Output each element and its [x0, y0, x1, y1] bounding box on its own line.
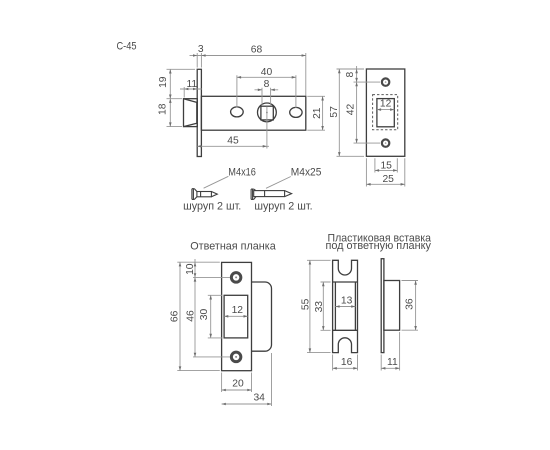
- svg-text:19: 19: [158, 76, 169, 88]
- arrows dim 25: [366, 183, 404, 186]
- dim 34 line: [222, 403, 272, 405]
- svg-text:21: 21: [312, 107, 323, 119]
- arrows dim 3: [193, 54, 206, 57]
- dim 8/57 top extension: [337, 68, 365, 70]
- svg-text:34: 34: [253, 393, 265, 404]
- svg-text:11: 11: [387, 357, 398, 368]
- latch body case: [201, 96, 305, 130]
- dim 45 line: [197, 145, 269, 147]
- arrows dim 16: [333, 367, 358, 370]
- dim 16 line: [333, 367, 358, 369]
- strike plate tab: [252, 282, 272, 351]
- svg-text:11: 11: [186, 79, 197, 90]
- front hole centre dots: [385, 81, 387, 83]
- arrows strike dim 12: [224, 315, 248, 318]
- front faceplate screw hole bottom: [382, 139, 389, 146]
- dim 33 line: [322, 282, 324, 330]
- dim 40 extensions: [237, 75, 296, 108]
- arrows dim 10: [194, 262, 197, 277]
- arrows dims 19/18: [169, 69, 172, 126]
- arrows dim 42: [355, 82, 358, 143]
- svg-text:шуруп 2 шт.: шуруп 2 шт.: [254, 200, 312, 212]
- screw M4x25: [251, 189, 292, 199]
- svg-text:13: 13: [341, 295, 353, 306]
- svg-text:45: 45: [227, 136, 239, 147]
- insert 33 extensions: [321, 282, 331, 330]
- spindle circle: [258, 103, 277, 122]
- dim 16 extensions: [333, 355, 358, 371]
- svg-text:под ответную планку: под ответную планку: [325, 240, 431, 252]
- strike extensions top/bottom: [177, 262, 220, 370]
- dim 21 line: [322, 96, 324, 130]
- latch faceplate bar (side view): [197, 69, 201, 156]
- dim 12 line (front plate): [377, 109, 394, 111]
- insert front outline with notches: [333, 260, 358, 352]
- dim 20 line: [222, 389, 252, 391]
- arrows dim 12 front: [377, 108, 394, 111]
- dim 55 line: [309, 260, 311, 352]
- front faceplate latch hole: [377, 99, 394, 127]
- svg-text:30: 30: [199, 309, 210, 321]
- svg-text:55: 55: [301, 298, 312, 310]
- arrows dim 46: [194, 277, 197, 357]
- svg-text:M4x16: M4x16: [228, 166, 256, 178]
- arrows dim 13: [335, 305, 355, 308]
- leader M4x16: [204, 176, 229, 188]
- dim 36 extensions: [402, 281, 419, 331]
- dim 11 line: [180, 88, 202, 90]
- dim 34 extension right: [271, 353, 273, 406]
- svg-text:16: 16: [341, 357, 353, 368]
- svg-text:3: 3: [198, 44, 204, 55]
- dim 10/46 line: [194, 259, 196, 357]
- arrows dim 8: [258, 89, 275, 92]
- dim 11 extension: [183, 87, 185, 98]
- arrows dim 55: [309, 260, 312, 352]
- dim 3 line: [190, 55, 198, 57]
- svg-text:12: 12: [380, 98, 392, 109]
- strike plate latch hole: [224, 295, 248, 338]
- dim 30 line: [210, 295, 212, 338]
- hole left oval: [231, 107, 244, 117]
- svg-text:33: 33: [314, 301, 325, 313]
- arrows dim 68: [302, 54, 306, 57]
- arrows dim 40: [237, 76, 296, 79]
- svg-text:18: 18: [158, 103, 169, 115]
- front faceplate rect: [366, 69, 404, 156]
- dim 57 line: [338, 69, 340, 156]
- dashed body outline: [373, 95, 398, 130]
- dim 15 extensions: [375, 158, 397, 172]
- insert section lines: [333, 282, 358, 330]
- dim 36 line: [415, 281, 417, 331]
- dim 11 line: [381, 367, 399, 369]
- arrows dim 33: [322, 282, 325, 330]
- svg-text:25: 25: [382, 174, 394, 185]
- svg-text:Ответная планка: Ответная планка: [190, 240, 276, 252]
- insert side view block: [384, 281, 400, 331]
- svg-text:36: 36: [405, 298, 416, 310]
- svg-text:66: 66: [169, 310, 180, 322]
- dim 25 extensions: [366, 158, 404, 186]
- strike screw hole bottom: [231, 352, 241, 362]
- arrows dim 21: [321, 96, 324, 130]
- arrows dim 66: [179, 262, 182, 370]
- svg-text:10: 10: [185, 263, 196, 275]
- strike screw hole top: [231, 273, 241, 283]
- insert side view flange: [381, 259, 384, 353]
- dim 3 extension lines: [197, 53, 201, 68]
- arrows dim 36: [414, 281, 417, 331]
- insert 55 extensions: [307, 260, 331, 352]
- svg-text:8: 8: [264, 79, 270, 90]
- leader M4x25: [266, 177, 291, 189]
- arrows dim 30: [209, 295, 212, 338]
- svg-text:46: 46: [186, 310, 197, 322]
- arrows dim 45: [197, 145, 267, 148]
- dim 68 right extension: [305, 53, 307, 96]
- svg-text:8: 8: [345, 71, 356, 77]
- dim 68 line: [197, 55, 306, 57]
- dim 20 extensions: [222, 373, 252, 393]
- svg-text:40: 40: [261, 67, 273, 78]
- dim 8 extensions: [262, 88, 271, 106]
- arrows dim 34: [222, 403, 272, 406]
- dims 19/18 line: [169, 69, 171, 126]
- svg-text:15: 15: [380, 160, 392, 171]
- dim 45 centre extension: [266, 107, 268, 149]
- hole centre extensions: [354, 82, 381, 143]
- dim 66 line: [179, 262, 181, 370]
- svg-text:M4x25: M4x25: [291, 166, 322, 178]
- dim 40 line: [237, 76, 296, 78]
- arrows dim 20: [222, 389, 252, 392]
- dim 25 line: [366, 183, 404, 185]
- hole right oval: [290, 107, 302, 117]
- svg-text:57: 57: [329, 106, 340, 118]
- insert dim 13 line: [335, 306, 355, 308]
- svg-text:68: 68: [251, 45, 263, 56]
- dim 57 bottom extension: [337, 155, 365, 157]
- front faceplate screw hole top: [382, 78, 389, 85]
- arrows dim 11: [184, 88, 197, 91]
- arrows dim 11: [381, 367, 399, 370]
- strike dim 12 line: [224, 315, 248, 317]
- svg-text:12: 12: [232, 305, 244, 316]
- dim 8 line: [255, 89, 279, 91]
- svg-text:20: 20: [232, 379, 244, 390]
- screw M4x16: [192, 189, 217, 200]
- arrows dim 8 front: [355, 69, 358, 82]
- arrows dim 57: [338, 69, 341, 156]
- svg-text:42: 42: [345, 104, 356, 116]
- dim 15 line: [375, 169, 397, 171]
- spindle square: [261, 106, 273, 120]
- latch bolt bevel: [184, 99, 197, 127]
- dim 11 extensions: [381, 332, 399, 371]
- dim 8/42 line: [356, 66, 358, 143]
- dim 21 extensions: [307, 96, 325, 130]
- insert middle block edges: [335, 282, 355, 330]
- strike plate rect: [222, 262, 252, 370]
- svg-text:C-45: C-45: [117, 41, 137, 53]
- strike hole centre extensions: [193, 277, 230, 357]
- svg-text:шуруп 2 шт.: шуруп 2 шт.: [183, 200, 241, 212]
- dims 19/18 extensions: [167, 69, 196, 126]
- arrows dim 15: [375, 169, 397, 172]
- latch bolt: [184, 99, 198, 127]
- strike latch hole extensions: [208, 295, 223, 338]
- spindle centre dot: [266, 112, 268, 114]
